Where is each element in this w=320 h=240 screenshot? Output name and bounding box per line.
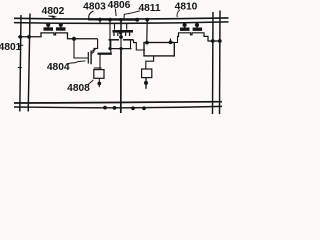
cluster drop wires	[110, 37, 131, 49]
wire cluster mid contact	[120, 20, 122, 38]
vertical line V1	[20, 15, 21, 112]
junction dot cluster bottom left	[108, 47, 111, 50]
transistor pair2 channel	[178, 33, 221, 41]
vertical line V4	[219, 11, 222, 115]
transistor T2b gate contact dot	[195, 23, 199, 27]
leader of 4804	[68, 61, 86, 64]
leader of 4808	[88, 80, 93, 85]
transistor T1a gate contact dot	[46, 23, 50, 27]
leader hook of 4801	[18, 45, 23, 48]
leader hook of 4810	[177, 10, 180, 17]
rectangle element	[144, 43, 174, 56]
transistor T1b gate contact dot	[59, 23, 63, 27]
wire from channel dot down to 4804 gate	[74, 39, 89, 58]
tick on V1	[18, 66, 22, 68]
terminal dot below 4808 box	[97, 82, 101, 86]
junction dot on bottom bus 2 (d)	[142, 106, 146, 110]
svg-text:4802: 4802	[42, 6, 65, 17]
junction dot V2/channel	[27, 35, 31, 39]
junction dot cluster top on bus A	[119, 18, 123, 22]
leader of 4806	[114, 9, 117, 17]
transistor T2a gate contact dot	[183, 23, 187, 27]
junction dot rect top-right	[169, 40, 173, 44]
junction dot cluster bottom mid	[119, 47, 122, 50]
leader hook of 4811	[124, 11, 140, 20]
transistor Q4804 drain hook	[92, 49, 96, 52]
middle cluster gate bar	[113, 30, 134, 33]
wire channel end down to 4804 drain	[92, 39, 98, 54]
transistor pair1 channel	[18, 33, 98, 39]
svg-text:4806: 4806	[108, 0, 131, 11]
junction dot V3/channel	[211, 39, 215, 43]
wire cluster feed left from bus B	[114, 24, 116, 30]
transistor 4808 gate bar thick	[98, 53, 112, 55]
transistor T1a gate bar	[44, 27, 54, 30]
wire rect bottom to small box	[146, 56, 154, 69]
element box 4808	[94, 70, 104, 79]
transistor 4808 gate tick	[94, 67, 102, 69]
wire cluster feed right from bus B	[126, 24, 128, 30]
junction dot V1/channel	[19, 35, 23, 39]
wire below 4808 box with terminal dot	[98, 78, 100, 87]
svg-text:4810: 4810	[175, 2, 198, 13]
wire 4811 down to rect	[146, 20, 148, 43]
leader arrow of 4802	[49, 15, 53, 18]
wire 4806 node down	[109, 19, 111, 40]
wire gate bar down to 4808 box	[99, 55, 101, 70]
wire rect top-right to pair2 channel	[171, 36, 180, 42]
middle cluster gate teeth	[114, 33, 130, 36]
junction dot V4/channel	[218, 39, 222, 43]
bottom bus line 2	[14, 106, 222, 107]
wire cluster down to bottom bus	[120, 49, 122, 113]
transistor T2a gate bar	[180, 28, 190, 31]
svg-text:4803: 4803	[83, 2, 106, 13]
junction dot node to T4804	[72, 37, 76, 41]
bottom bus line 1	[14, 102, 222, 103]
transistor T1b gate bar	[56, 27, 66, 30]
leader hook of 4803	[89, 11, 94, 18]
vertical line V3	[212, 12, 215, 114]
junction dot on bottom bus 2 (b)	[113, 106, 117, 110]
junction dot below small box	[144, 81, 148, 85]
junction dot on bottom bus 2 (a)	[103, 106, 107, 110]
junction dot 4803 on bus A	[98, 18, 102, 22]
small box element	[142, 69, 152, 78]
wire cluster to rect	[134, 40, 146, 50]
junction dot rect top-left	[145, 41, 149, 45]
transistor Q4804 gate bar	[87, 52, 89, 64]
top bus line A	[14, 18, 229, 19]
vertical line V2	[28, 14, 30, 112]
middle cluster right plate	[123, 39, 134, 41]
svg-text:4808: 4808	[67, 83, 90, 94]
junction dot cluster mid	[119, 35, 123, 39]
wire below small box	[145, 78, 147, 89]
middle cluster left plate	[109, 39, 120, 41]
cluster bottom wire	[109, 48, 132, 50]
wire cluster left down to 4808 gate bar	[110, 40, 112, 53]
wire 4803 node down	[99, 20, 101, 25]
transistor T2b gate bar	[193, 28, 203, 31]
junction dot on bottom bus 2 (c)	[131, 106, 135, 110]
top bus line B	[14, 22, 229, 23]
junction dot 4811 a on bus A	[135, 18, 139, 22]
svg-text:4811: 4811	[138, 3, 160, 14]
transistor Q4804 channel bar	[90, 51, 92, 65]
junction dot under cluster bar	[119, 31, 122, 34]
junction dot 4811 b on bus A	[145, 18, 149, 22]
junction dot 4806 on bus A	[108, 18, 112, 22]
svg-text:4804: 4804	[47, 62, 70, 73]
